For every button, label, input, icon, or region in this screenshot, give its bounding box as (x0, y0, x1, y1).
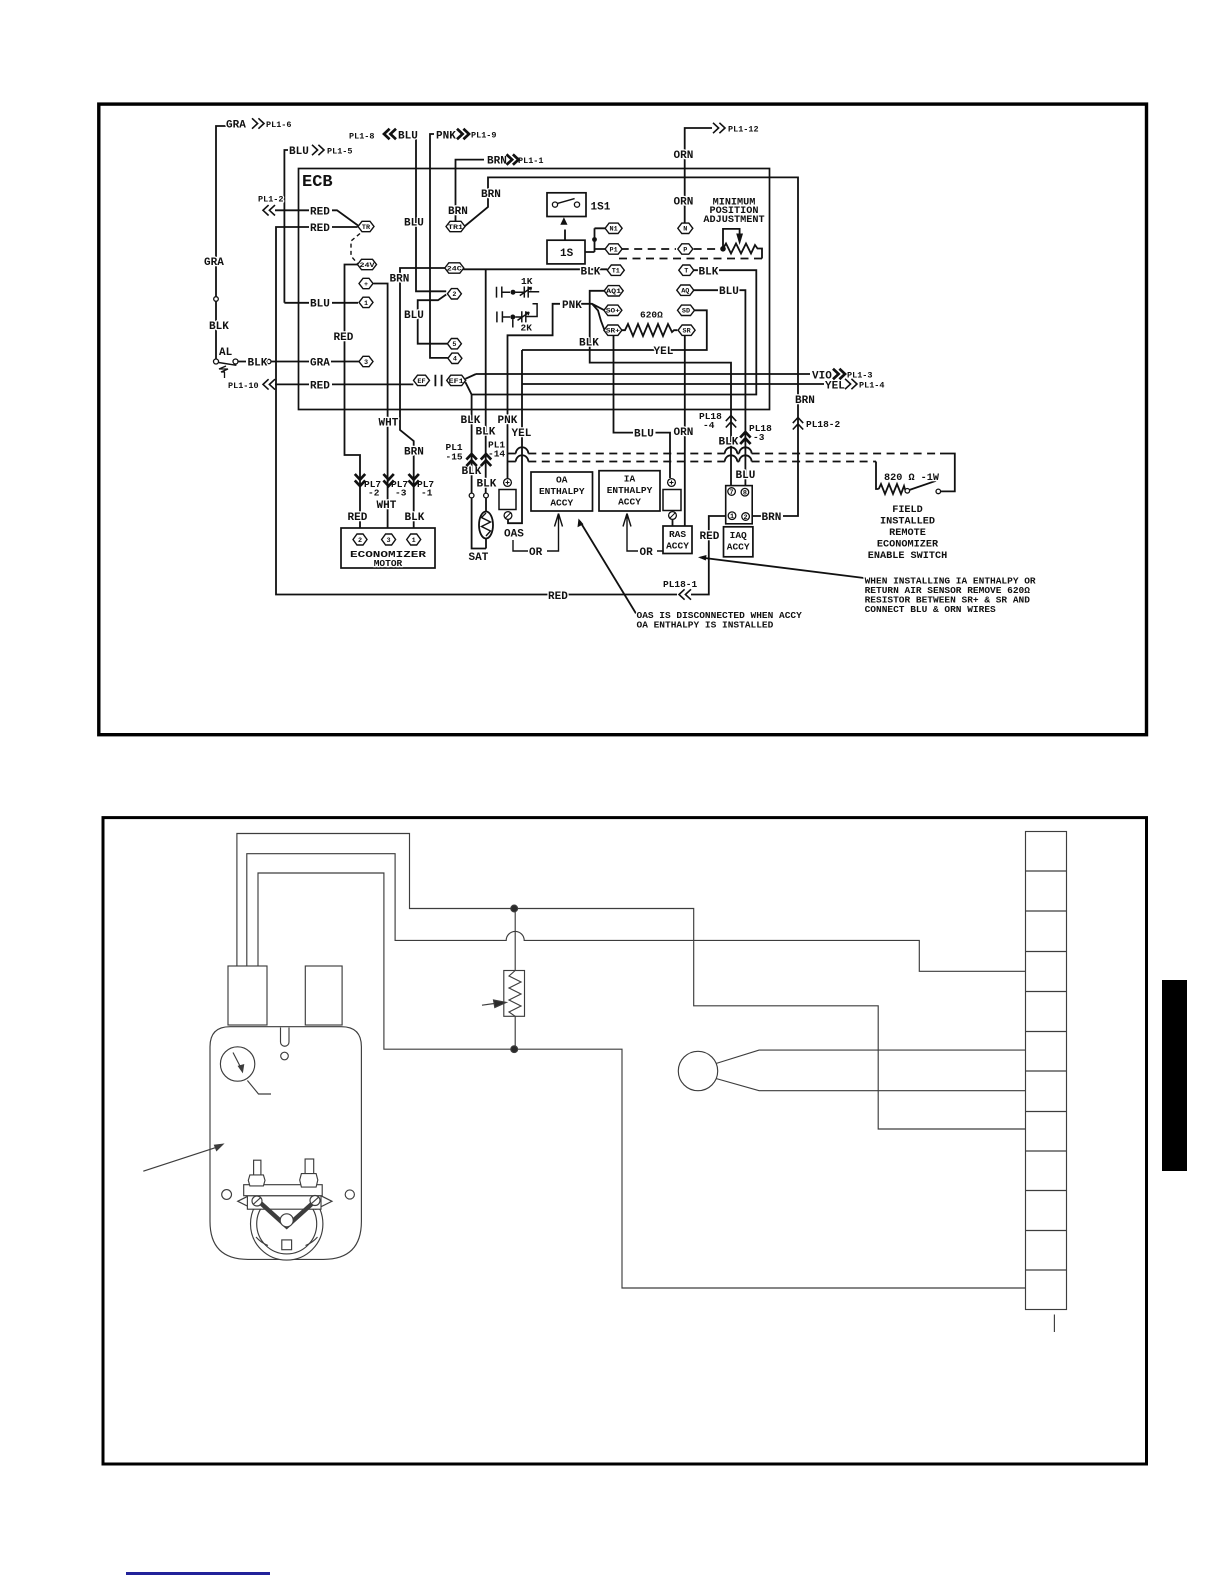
svg-text:-4: -4 (703, 420, 715, 431)
svg-text:ENABLE SWITCH: ENABLE SWITCH (868, 551, 947, 562)
svg-text:2K: 2K (521, 323, 533, 334)
svg-text:BLU: BLU (719, 286, 739, 298)
svg-text:WHT: WHT (377, 500, 397, 512)
svg-text:PL18-1: PL18-1 (663, 579, 698, 590)
svg-text:BLU: BLU (736, 470, 756, 482)
svg-text:BLU: BLU (404, 218, 424, 230)
svg-text:REMOTE: REMOTE (889, 528, 926, 539)
svg-text:3: 3 (387, 537, 391, 545)
svg-text:OAS: OAS (504, 529, 524, 541)
svg-text:ORN: ORN (674, 427, 694, 439)
svg-text:BLK: BLK (581, 266, 601, 278)
svg-text:820 Ω -1W: 820 Ω -1W (884, 473, 940, 484)
svg-text:P: P (683, 246, 687, 254)
svg-text:BLK: BLK (699, 266, 719, 278)
svg-text:5: 5 (452, 341, 456, 349)
svg-text:SR: SR (683, 328, 692, 336)
svg-text:BLK: BLK (248, 357, 268, 369)
svg-text:EF1: EF1 (449, 378, 464, 386)
svg-text:SAT: SAT (469, 552, 489, 564)
svg-text:OA: OA (556, 475, 568, 486)
svg-text:3: 3 (364, 359, 368, 367)
svg-text:2: 2 (452, 291, 456, 299)
svg-text:BRN: BRN (404, 447, 424, 459)
svg-text:SR+: SR+ (606, 328, 620, 336)
svg-text:PL1-3: PL1-3 (847, 371, 873, 381)
svg-text:N1: N1 (610, 226, 618, 234)
svg-text:-3: -3 (753, 432, 765, 443)
svg-text:AL: AL (219, 347, 233, 359)
svg-text:BLU: BLU (289, 146, 309, 158)
svg-text:FIELD: FIELD (892, 505, 923, 516)
svg-text:+: + (364, 281, 368, 289)
svg-text:T: T (684, 268, 688, 276)
svg-text:RED: RED (700, 531, 720, 543)
svg-text:ORN: ORN (674, 197, 694, 209)
svg-text:BLU: BLU (634, 429, 654, 441)
svg-text:RAS: RAS (669, 529, 686, 540)
svg-text:7: 7 (730, 489, 734, 497)
svg-text:PL1-10: PL1-10 (228, 381, 259, 391)
svg-text:PNK: PNK (498, 415, 518, 427)
svg-text:BLK: BLK (405, 512, 425, 524)
svg-text:1K: 1K (521, 276, 533, 287)
svg-text:RED: RED (310, 380, 330, 392)
svg-text:YEL: YEL (654, 346, 674, 358)
svg-text:OR: OR (640, 547, 654, 559)
svg-text:BLK: BLK (719, 437, 739, 449)
svg-text:2: 2 (744, 514, 748, 522)
svg-text:CONNECT BLU & ORN WIRES: CONNECT BLU & ORN WIRES (865, 604, 996, 615)
svg-text:4: 4 (453, 356, 457, 364)
svg-text:ACCY: ACCY (666, 541, 689, 552)
svg-text:OR: OR (529, 547, 543, 559)
svg-text:PL1-1: PL1-1 (518, 156, 544, 166)
svg-text:BLU: BLU (310, 299, 330, 311)
svg-text:AQ1: AQ1 (606, 288, 621, 296)
svg-text:BLK: BLK (477, 479, 497, 491)
svg-text:AQ: AQ (681, 288, 689, 296)
svg-text:RED: RED (548, 591, 568, 603)
svg-text:ENTHALPY: ENTHALPY (607, 485, 653, 496)
svg-text:ACCY: ACCY (618, 497, 641, 508)
svg-text:WHT: WHT (379, 418, 399, 430)
svg-text:PNK: PNK (436, 131, 456, 143)
svg-text:1: 1 (730, 513, 734, 521)
svg-text:GRA: GRA (204, 257, 224, 269)
svg-text:T1: T1 (612, 268, 620, 276)
svg-text:RED: RED (334, 332, 354, 344)
svg-text:IA: IA (624, 474, 636, 485)
svg-text:BLU: BLU (398, 131, 418, 143)
svg-text:INSTALLED: INSTALLED (880, 517, 935, 528)
svg-text:ACCY: ACCY (727, 542, 750, 553)
svg-text:ADJUSTMENT: ADJUSTMENT (703, 215, 764, 226)
svg-text:1S1: 1S1 (591, 202, 611, 214)
svg-text:IAQ: IAQ (730, 530, 747, 541)
svg-text:24V: 24V (360, 262, 376, 270)
svg-text:BRN: BRN (795, 395, 815, 407)
svg-text:TR: TR (362, 224, 371, 232)
svg-text:ORN: ORN (674, 150, 694, 162)
svg-text:BLK: BLK (209, 321, 229, 333)
svg-text:2: 2 (358, 537, 362, 545)
svg-text:-1: -1 (421, 488, 433, 499)
svg-text:SD: SD (682, 308, 690, 316)
svg-text:PL1-12: PL1-12 (728, 125, 759, 135)
svg-text:MOTOR: MOTOR (374, 558, 403, 569)
svg-text:1S: 1S (560, 248, 574, 260)
svg-text:PL18-2: PL18-2 (806, 419, 841, 430)
svg-text:BLK: BLK (476, 427, 496, 439)
svg-text:SO+: SO+ (606, 308, 620, 316)
svg-text:BRN: BRN (481, 189, 501, 201)
svg-text:GRA: GRA (226, 120, 246, 132)
svg-text:ECB: ECB (302, 173, 333, 192)
svg-text:N: N (683, 226, 687, 234)
svg-text:ACCY: ACCY (550, 498, 573, 509)
svg-text:TR1: TR1 (448, 224, 463, 232)
svg-text:BLK: BLK (461, 415, 481, 427)
svg-text:BRN: BRN (390, 274, 410, 286)
svg-text:BLK: BLK (462, 466, 482, 478)
svg-text:ECONOMIZER: ECONOMIZER (877, 540, 939, 551)
svg-text:-2: -2 (368, 488, 380, 499)
svg-text:620Ω: 620Ω (640, 310, 663, 321)
svg-text:RED: RED (310, 206, 330, 218)
svg-text:-15: -15 (446, 452, 463, 463)
svg-text:BLK: BLK (579, 337, 599, 349)
svg-text:OA ENTHALPY IS INSTALLED: OA ENTHALPY IS INSTALLED (637, 620, 774, 631)
svg-text:PL1-4: PL1-4 (859, 381, 885, 391)
svg-text:BRN: BRN (448, 206, 468, 218)
svg-text:YEL: YEL (825, 380, 845, 392)
svg-text:24C: 24C (447, 265, 462, 273)
svg-text:EF: EF (417, 378, 425, 386)
svg-text:PNK: PNK (562, 300, 582, 312)
svg-text:PL1-8: PL1-8 (349, 132, 375, 142)
svg-text:BLU: BLU (404, 310, 424, 322)
svg-text:YEL: YEL (512, 428, 532, 440)
svg-text:1: 1 (364, 300, 368, 308)
svg-text:BRN: BRN (762, 512, 782, 524)
svg-text:-3: -3 (395, 488, 407, 499)
svg-text:PL1-2: PL1-2 (258, 195, 284, 205)
svg-text:BRN: BRN (487, 156, 507, 168)
svg-text:ENTHALPY: ENTHALPY (539, 486, 585, 497)
svg-text:PL1-5: PL1-5 (327, 147, 353, 157)
svg-text:P1: P1 (610, 246, 618, 254)
svg-text:PL1-6: PL1-6 (266, 120, 292, 130)
svg-text:RED: RED (310, 223, 330, 235)
svg-text:8: 8 (743, 490, 747, 498)
svg-text:1: 1 (412, 537, 416, 545)
svg-text:PL1-9: PL1-9 (471, 131, 497, 141)
svg-text:GRA: GRA (310, 358, 330, 370)
svg-text:RED: RED (348, 512, 368, 524)
